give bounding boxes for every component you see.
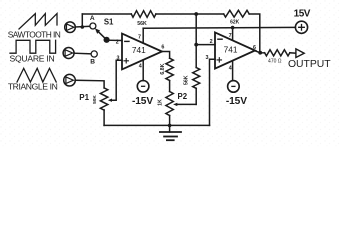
- triangle waveform icon: [17, 68, 56, 82]
- svg-text:50K: 50K: [92, 95, 98, 104]
- junction dot U2 pin7 rail: [231, 26, 235, 30]
- resistor 56K vertical: [193, 68, 200, 89]
- wire top rail down to U2 pin2: [196, 14, 215, 45]
- P2 wiper arrow: [176, 103, 196, 105]
- wire pole to U1 pin2: [107, 39, 122, 41]
- wire node down to 56K vertical: [195, 45, 197, 68]
- svg-text:741: 741: [224, 44, 238, 54]
- svg-text:15V: 15V: [294, 9, 311, 20]
- resistor 62K feedback: [224, 10, 250, 17]
- potentiometer P1 50K: [100, 88, 107, 110]
- svg-text:S1: S1: [104, 17, 114, 26]
- square waveform icon: [10, 40, 56, 53]
- U1 pin7 to +15V rail: [142, 28, 144, 43]
- supply -15V circle U2: [228, 81, 240, 93]
- svg-text:-15V: -15V: [226, 96, 247, 107]
- +15V rail: [143, 26, 295, 29]
- junction dot U2 pin2 node: [194, 43, 198, 47]
- svg-text:56K: 56K: [183, 75, 189, 85]
- svg-text:741: 741: [132, 45, 146, 55]
- svg-text:4: 4: [139, 64, 142, 70]
- svg-text:SAWTOOTH IN: SAWTOOTH IN: [8, 29, 61, 39]
- U2 pin4 to -15V: [232, 61, 234, 81]
- resistor 6.8K: [166, 58, 173, 80]
- resistor 470 ohm: [265, 50, 290, 56]
- supply -15V circle U1: [137, 81, 149, 93]
- wire J1 to node A: [75, 25, 90, 28]
- resistor 56K top: [131, 11, 156, 18]
- svg-text:3: 3: [206, 55, 209, 61]
- svg-text:6: 6: [161, 44, 164, 50]
- wire top rail middle segment: [156, 13, 224, 15]
- svg-text:B: B: [90, 59, 95, 66]
- wire node up to top rail: [81, 14, 83, 27]
- wire P1 bottom to ground rail: [103, 110, 105, 125]
- output arrow: [296, 49, 304, 58]
- wire J3 to P1 top: [75, 80, 104, 88]
- terminal A: [90, 23, 96, 29]
- svg-text:1K: 1K: [157, 99, 163, 106]
- jack J2 square input: [63, 48, 74, 59]
- potentiometer P2 1K: [166, 92, 173, 116]
- svg-text:6.8K: 6.8K: [160, 63, 166, 74]
- U2 pin7 to +15V rail: [232, 28, 234, 41]
- svg-text:SQUARE IN: SQUARE IN: [9, 54, 54, 64]
- junction dot sawtooth node: [81, 25, 85, 29]
- svg-text:-15V: -15V: [132, 96, 153, 107]
- svg-text:7: 7: [229, 33, 232, 39]
- svg-text:6: 6: [253, 45, 256, 51]
- op-amp U2: [215, 32, 255, 68]
- terminal B: [91, 51, 97, 57]
- svg-text:A: A: [90, 15, 95, 22]
- U1 pin3 wire to P1 wiper: [111, 60, 122, 100]
- ground symbol: [168, 124, 172, 128]
- svg-text:OUTPUT: OUTPUT: [288, 59, 331, 70]
- svg-text:3: 3: [117, 55, 120, 61]
- svg-text:62K: 62K: [230, 20, 240, 26]
- wire P2 bottom to ground rail: [169, 116, 171, 126]
- U1 output pin6 to 6.8K: [162, 52, 170, 59]
- svg-text:7: 7: [138, 35, 141, 41]
- jack J1 sawtooth input: [65, 22, 76, 33]
- sawtooth waveform icon: [19, 14, 57, 29]
- U2 output wire: [255, 51, 265, 53]
- junction dot output node: [258, 51, 262, 55]
- svg-text:470 Ω: 470 Ω: [268, 59, 282, 65]
- svg-text:2: 2: [116, 40, 119, 46]
- svg-text:4: 4: [229, 65, 232, 71]
- wire 62K to output node: [249, 14, 260, 52]
- wire 470 to output arrow: [290, 52, 296, 54]
- wire top rail left segment: [82, 13, 131, 15]
- op-amp U1: [122, 34, 162, 70]
- supply +15V circle: [295, 21, 307, 33]
- svg-text:P1: P1: [79, 93, 89, 102]
- switch S1 arm: [97, 31, 106, 40]
- svg-text:P2: P2: [178, 92, 188, 101]
- svg-text:2: 2: [210, 39, 213, 45]
- svg-text:56K: 56K: [137, 21, 147, 27]
- wire J2 to node B: [74, 52, 91, 55]
- U1 pin4 to -15V: [142, 60, 144, 81]
- wire 6.8K to P2: [169, 81, 171, 92]
- junction dot top rail: [194, 12, 198, 16]
- ground rail: [104, 124, 209, 126]
- switch S1 pole: [104, 37, 110, 43]
- wire rail up to U2 pin3: [210, 59, 216, 125]
- jack J3 triangle input: [64, 74, 76, 86]
- wire 56K bottom to wiper: [195, 88, 197, 104]
- svg-text:TRIANGLE IN: TRIANGLE IN: [8, 82, 58, 92]
